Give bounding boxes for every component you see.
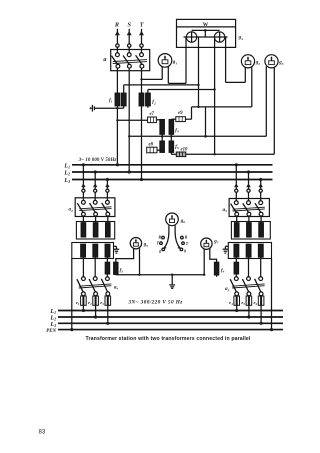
- label L2 (HV): [63, 171, 70, 177]
- label PEN: [46, 329, 56, 334]
- transformer T2 (right) box with windings: [228, 243, 271, 259]
- svg-text:f6: f6: [175, 145, 179, 150]
- svg-text:S: S: [127, 22, 131, 29]
- svg-text:L1: L1: [49, 309, 56, 315]
- wire g5 left terminal to f3b: [116, 248, 134, 262]
- wire W vertical C down to H11: [213, 37, 215, 154]
- label g6: [180, 219, 186, 224]
- svg-text:g1: g1: [172, 60, 178, 65]
- selector contacts right (R T 0): [180, 235, 189, 254]
- label a: [103, 56, 106, 63]
- wire H10 phase S tap to g3 left terminal: [128, 67, 266, 138]
- wires a3 to HV fuse box: [237, 216, 261, 223]
- label e7: [150, 112, 155, 117]
- junction phase R on L1: [116, 163, 119, 166]
- wire H1 tap phase T to g1 left terminal: [140, 67, 162, 81]
- wires a2 to HV fuse box: [83, 216, 107, 223]
- label g7: [213, 240, 219, 245]
- wire H7 e9 riser to g2 right terminal: [192, 67, 252, 119]
- label L3 (LV): [49, 322, 56, 328]
- svg-text:f1: f1: [109, 98, 113, 103]
- svg-text:f3: f3: [120, 269, 124, 274]
- switch a4 (3-pole, left LV): [77, 277, 111, 296]
- wire g7 right terminal to f4b: [210, 249, 217, 263]
- wire e7 right to fuse column L: [156, 119, 162, 121]
- wire H3 fuse f1b to W vertical B: [124, 85, 199, 93]
- svg-text:e3: e3: [100, 300, 104, 306]
- label L1 (HV): [63, 163, 70, 169]
- svg-text:g4: g4: [238, 36, 244, 41]
- wire column L between fuse pairs: [161, 134, 163, 141]
- meter g3: [265, 55, 278, 68]
- meter g2: [241, 55, 254, 68]
- label e1: [76, 300, 80, 306]
- meter e9 (hatched box): [176, 117, 186, 122]
- wire H6 W vertical D to g2 left terminal: [226, 37, 246, 82]
- wire H12 metering neutral: [116, 273, 204, 275]
- label e10: [181, 147, 189, 152]
- wire incoming S with arrow and contact circle: [127, 29, 132, 53]
- meter e10 (hatched box): [176, 152, 186, 157]
- junction e2 on LV L2: [94, 315, 97, 318]
- svg-text:Transformer station with two t: Transformer station with two transformer…: [86, 336, 251, 342]
- junction phase T on L3: [140, 178, 143, 181]
- label a2: [69, 207, 74, 213]
- meter g6 (voltmeter): [166, 213, 179, 226]
- right branch drop from L3: [259, 178, 263, 201]
- label f2: [152, 100, 156, 105]
- wire stub fuse f2b bottom: [147, 106, 149, 108]
- label e6: [254, 300, 258, 306]
- fuse e6 (LV fuse with stripe): [258, 296, 264, 324]
- svg-text:L3: L3: [49, 322, 56, 328]
- ground of T1 star point: [114, 246, 120, 253]
- label g1: [172, 60, 178, 65]
- fuse f5 pair (column fuses, filled): [160, 120, 174, 135]
- svg-text:R: R: [158, 235, 161, 240]
- wire incoming T with arrow and contact circle: [139, 29, 144, 53]
- wire e10 left to column R: [171, 152, 176, 154]
- caption: [86, 336, 251, 342]
- CT circle left inside W: [184, 32, 228, 42]
- wire W vertical B down to H7: [197, 37, 199, 107]
- svg-text:L3: L3: [63, 178, 70, 184]
- wire e9 left to fuse column R: [171, 118, 176, 120]
- wire phase T from switch down to HV bus L3: [141, 68, 143, 179]
- label a5: [225, 286, 230, 292]
- left branch drop from L2: [93, 170, 97, 200]
- right branch drop from L2: [246, 170, 250, 200]
- fuse f1 pair (HT fuses, filled): [115, 93, 126, 106]
- junction T2 neutral on PEN: [270, 328, 273, 331]
- label f4: [221, 269, 225, 274]
- label f5: [175, 129, 179, 134]
- label e5: [241, 300, 245, 306]
- fuse f6 pair (column fuses, filled): [160, 141, 174, 152]
- svg-text:W: W: [203, 22, 209, 28]
- junction e1 on LV L1: [82, 309, 85, 312]
- svg-text:f4: f4: [221, 269, 225, 274]
- LV feeder text 3N~ 380/220 V 50 Hz: [127, 299, 183, 305]
- svg-text:T: T: [140, 22, 144, 29]
- label e9: [178, 111, 183, 116]
- label L3 (HV): [63, 178, 70, 184]
- left branch drop from L3: [105, 178, 109, 201]
- fuse f3a on T1 phase (filled): [105, 262, 109, 276]
- HV fuse box right (three fuses): [231, 222, 270, 240]
- svg-text:g6: g6: [180, 219, 186, 224]
- svg-text:L2: L2: [63, 171, 70, 177]
- svg-text:g7: g7: [213, 240, 219, 245]
- svg-text:f5: f5: [175, 129, 179, 134]
- wattmeter W box with two CT circles: [177, 19, 236, 47]
- right branch drop from L1: [234, 163, 238, 200]
- svg-text:3~ 10 000 V 50Hz: 3~ 10 000 V 50Hz: [78, 158, 117, 163]
- wire phase R from switch to fuse f1a: [116, 68, 118, 93]
- svg-text:T: T: [186, 241, 189, 246]
- fuse f4a on T2 phase (filled): [234, 262, 238, 274]
- meter g7 (ammeter): [201, 238, 212, 249]
- svg-text:e10: e10: [181, 147, 189, 152]
- HV fuse box left (three fuses): [76, 222, 114, 240]
- HV bus L1: [72, 164, 273, 166]
- fuse e2 (LV fuse with stripe): [93, 296, 99, 317]
- junction phase S on L2: [128, 170, 131, 173]
- junction e3 on LV L3: [106, 322, 109, 325]
- wire e7 left to phase R: [116, 119, 147, 121]
- svg-text:0: 0: [184, 249, 186, 254]
- node R incoming phase label: [114, 22, 119, 29]
- wire connector H7 to H10: [205, 107, 207, 136]
- label f3: [120, 269, 124, 274]
- label e3: [100, 300, 104, 306]
- ground of T2 star point: [223, 246, 229, 253]
- fuse f4b on T2 metering neutral (filled): [215, 262, 219, 277]
- fuse e1 (LV fuse with stripe): [81, 296, 87, 311]
- svg-text:3N~ 380/220 V 50 Hz: 3N~ 380/220 V 50 Hz: [127, 299, 183, 305]
- wires T1 secondary down to switch a4: [83, 257, 107, 277]
- svg-text:a2: a2: [69, 207, 74, 213]
- neutral wire T2 right edge down to PEN: [271, 259, 273, 330]
- HV bus L2: [72, 171, 273, 173]
- wire g7 left terminal down to H12: [203, 249, 205, 276]
- svg-text:0: 0: [159, 249, 161, 254]
- label e4: [229, 300, 233, 306]
- wire g5 right terminal down to H12: [138, 248, 140, 276]
- switch a5 (3-pole, right LV): [230, 277, 264, 296]
- transformer T1 (left) box with windings: [72, 243, 114, 259]
- svg-text:a3: a3: [223, 207, 228, 213]
- wire phase R from fuse f1a to HV bus L1: [116, 106, 118, 165]
- svg-text:a: a: [103, 56, 106, 63]
- wire e8 right to column L: [157, 149, 162, 151]
- svg-text:f2: f2: [152, 100, 156, 105]
- meter g5 (ammeter): [130, 238, 141, 249]
- LV bus PEN: [58, 329, 283, 331]
- label g3: [278, 61, 284, 66]
- fuse e5 (LV fuse with stripe): [246, 296, 252, 317]
- svg-text:e8: e8: [149, 143, 154, 148]
- label e8: [149, 143, 154, 148]
- switch a (3-pole disconnector box): [111, 50, 150, 71]
- wire H11 e10 right to g3 right terminal: [186, 68, 274, 156]
- label g4: [238, 36, 244, 41]
- svg-text:g3: g3: [278, 61, 284, 66]
- switch a3 (3-pole disconnector box, right transformer): [229, 199, 269, 217]
- page number 83: [39, 429, 46, 435]
- svg-text:PEN: PEN: [46, 329, 56, 334]
- HV bus L3: [72, 179, 273, 181]
- wire H4 fuse f2b to W vertical C: [148, 90, 215, 94]
- fuse f3b on T1 metering neutral (filled): [114, 262, 118, 274]
- svg-text:e5: e5: [241, 300, 245, 306]
- wire tap from terminal to fuse f1b bottom: [94, 106, 123, 110]
- fuse f2 pair (HT fuses, filled): [139, 93, 150, 106]
- svg-text:R: R: [114, 22, 119, 29]
- meter e7 (hatched box): [148, 117, 157, 123]
- junction e5 on LV L2: [247, 315, 250, 318]
- ground on metering neutral: [169, 274, 175, 289]
- wire H2 g1 right terminal to W vertical A: [168, 37, 186, 83]
- svg-text:e9: e9: [178, 111, 183, 116]
- CT circle right inside W: [214, 32, 224, 42]
- junction e4 on LV L1: [235, 309, 238, 312]
- svg-text:L1: L1: [63, 163, 70, 169]
- switch a2 (3-pole disconnector box, left transformer): [75, 198, 115, 217]
- label g5: [143, 243, 149, 248]
- selector contacts left (R T 0): [157, 235, 165, 255]
- wire e9 right riser: [185, 118, 191, 120]
- svg-text:g5: g5: [143, 243, 149, 248]
- label a3: [223, 207, 228, 213]
- LV bus L1: [58, 310, 283, 312]
- LV bus L2: [58, 316, 283, 318]
- svg-text:83: 83: [39, 429, 46, 435]
- svg-text:e6: e6: [254, 300, 258, 306]
- svg-text:e2: e2: [88, 300, 92, 306]
- label a4: [114, 284, 119, 290]
- svg-text:e1: e1: [76, 300, 80, 306]
- svg-text:g2: g2: [255, 61, 261, 66]
- wires T2 secondary down to switch a5: [236, 257, 260, 277]
- svg-text:a4: a4: [114, 284, 119, 290]
- fuse e3 (LV fuse with stripe): [105, 296, 111, 324]
- svg-text:a5: a5: [225, 286, 230, 292]
- label e2: [88, 300, 92, 306]
- label f1: [109, 98, 113, 103]
- label g2: [255, 61, 261, 66]
- HV feeder text 3~ 10 000 V 50 Hz: [78, 158, 117, 163]
- wire column R between fuse pairs: [170, 134, 172, 141]
- voltmeter selector switch wipers: [163, 225, 180, 249]
- svg-text:e4: e4: [229, 300, 233, 306]
- fuse e4 (LV fuse with stripe): [234, 296, 240, 311]
- svg-text:R: R: [185, 235, 188, 240]
- meter g1 (voltmeter with gauge symbol): [158, 54, 172, 68]
- label L2 (LV): [49, 316, 56, 322]
- label L1 (LV): [49, 309, 56, 315]
- junction e6 on LV L3: [260, 322, 263, 325]
- node S incoming phase label: [127, 22, 131, 29]
- junction T1 neutral on PEN: [70, 328, 73, 331]
- label f6: [175, 145, 179, 150]
- neutral wire T1 left edge down to PEN: [71, 259, 73, 330]
- svg-text:L2: L2: [49, 316, 56, 322]
- terminal symbol (measuring tap termination): [90, 105, 95, 112]
- LV bus L3: [58, 322, 283, 324]
- left branch drop from L1: [81, 163, 85, 200]
- svg-text:e7: e7: [150, 112, 155, 117]
- meter e8 (hatched box): [147, 147, 157, 153]
- node T incoming phase label: [140, 22, 144, 29]
- wire incoming R with arrow and contact circle: [115, 29, 120, 53]
- wire phase S from switch down to HV bus L2: [128, 68, 130, 172]
